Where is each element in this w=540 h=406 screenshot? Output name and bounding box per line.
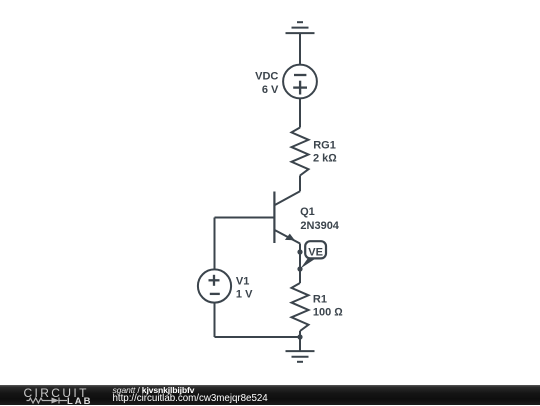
svg-text:2N3904: 2N3904	[300, 220, 339, 232]
svg-text:V1: V1	[236, 276, 249, 288]
svg-text:Q1: Q1	[300, 206, 315, 218]
svg-text:VDC: VDC	[255, 71, 278, 83]
svg-text:2 kΩ: 2 kΩ	[313, 152, 337, 164]
svg-text:R1: R1	[313, 294, 327, 306]
svg-text:VE: VE	[308, 246, 323, 258]
svg-text:1 V: 1 V	[236, 289, 253, 301]
svg-text:LAB: LAB	[67, 396, 91, 406]
svg-text:RG1: RG1	[313, 139, 336, 151]
svg-text:100 Ω: 100 Ω	[313, 307, 343, 319]
svg-text:6 V: 6 V	[262, 84, 279, 96]
